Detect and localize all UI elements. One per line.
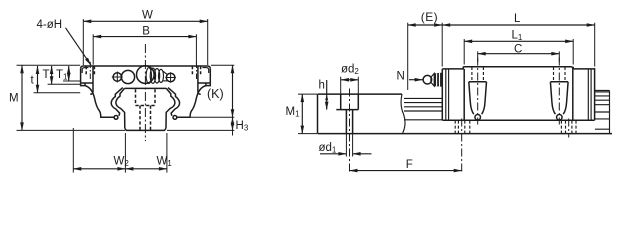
hidden rail hole under block (counterbore) — [455, 121, 470, 134]
dim L1 — [464, 40, 573, 42]
leader 4-oH — [66, 28, 92, 65]
hidden rail hole 3 (through) — [566, 121, 572, 134]
svg-text:(K): (K) — [207, 87, 224, 101]
bottom extension line (rail bottom extended left) — [17, 129, 126, 131]
block top-left corner — [81, 66, 84, 69]
od2 extension lines — [341, 77, 359, 94]
block inner profile left (wraps rail groove) — [111, 88, 123, 116]
dim H3 vertical — [232, 117, 234, 130]
L1 extension lines — [464, 39, 573, 65]
lip bottom extended right for K/H3 — [191, 116, 234, 118]
W1 left extension (rail left side ext) — [124, 133, 126, 173]
dim h — [326, 80, 328, 110]
svg-text:B: B — [142, 25, 150, 37]
block side outline — [442, 67, 594, 121]
svg-text:ød2: ød2 — [341, 64, 359, 77]
svg-text:T: T — [43, 69, 50, 81]
second hole centerline — [461, 119, 463, 173]
svg-text:F: F — [406, 159, 413, 171]
block top-right corner — [208, 66, 211, 69]
dim C — [478, 53, 560, 55]
svg-text:W2: W2 — [114, 156, 130, 169]
rail bottom extended right for H3 — [167, 129, 234, 131]
N leader — [409, 79, 423, 81]
hidden rail hole 3 under right cap (counterbore) — [561, 121, 576, 134]
dim B — [93, 36, 196, 38]
h up arrow — [325, 94, 328, 100]
block mounting hole left (hidden) — [86, 66, 94, 76]
svg-text:N: N — [397, 71, 405, 83]
block inner profile right (wraps rail groove) — [168, 88, 180, 116]
end cap face line left — [81, 67, 93, 95]
block cap joint left — [463, 69, 465, 120]
svg-text:ød1: ød1 — [319, 142, 337, 155]
nipple body white stripes — [437, 73, 440, 87]
cap inner corner top-left — [82, 68, 88, 73]
svg-text:W: W — [142, 10, 153, 22]
dim F — [350, 170, 462, 172]
svg-text:(E): (E) — [421, 10, 438, 24]
dim W — [83, 20, 207, 22]
od1 extension lines — [346, 134, 352, 157]
cap inner corner top-right — [202, 68, 208, 73]
dim t — [37, 66, 39, 93]
block tapped hole bullet 1 — [469, 82, 487, 114]
carriage block outline (front view) — [81, 66, 211, 83]
E extension line — [407, 23, 409, 90]
hidden rail hole under block (through) — [458, 121, 464, 134]
rail counterbore (side) — [336, 94, 358, 110]
dim T1 — [68, 66, 70, 81]
hole 3 centerline — [568, 119, 570, 138]
rail hole centerline — [349, 89, 351, 173]
rail grooves right of block — [595, 91, 610, 134]
bullet1 centerline — [477, 58, 479, 125]
bullet2 hidden thread lines — [554, 67, 566, 82]
svg-text:M: M — [9, 93, 19, 105]
rail break line — [401, 94, 405, 134]
rail through hole (side) — [346, 110, 352, 134]
ball circle left lip — [114, 116, 118, 120]
seal plate lines right — [588, 69, 591, 120]
W1 right extension (rail right side ext) — [166, 133, 168, 173]
face port circle left — [121, 70, 134, 83]
H3 line tail — [232, 130, 234, 135]
dim W2 — [73, 168, 125, 170]
grease nipple (side view) ball — [423, 75, 432, 84]
W extension lines — [83, 19, 207, 65]
svg-text:H3: H3 — [236, 120, 249, 133]
svg-text:M1: M1 — [286, 106, 301, 119]
dim M1 — [301, 94, 303, 134]
rail bolt hole hidden (counterbore) — [136, 89, 156, 105]
B extension lines — [93, 34, 196, 65]
t bottom extension — [34, 92, 81, 94]
rail top/bottom extended left for M1 — [298, 94, 317, 134]
dim T — [51, 66, 53, 84]
rail side sectioned part outline — [318, 94, 613, 134]
T bottom extension — [48, 83, 81, 85]
grease nipple body — [434, 73, 442, 87]
W2/W1 left extension — [72, 128, 74, 173]
block top extended right for K — [211, 64, 234, 66]
T1 bottom extension — [63, 80, 80, 82]
main vertical centerline — [144, 44, 146, 141]
svg-text:T1: T1 — [56, 69, 68, 82]
bullet2 tip ball — [557, 114, 563, 120]
rail grooves left of block — [404, 98, 442, 119]
bullet1 tip ball — [475, 114, 481, 120]
svg-text:4-øH: 4-øH — [37, 19, 63, 31]
block right side step and lower lip — [176, 83, 210, 117]
grease nipple seat circle center — [137, 66, 155, 84]
rail bolt hole hidden (through hole) — [140, 106, 151, 130]
C extension lines — [478, 51, 560, 62]
svg-text:C: C — [514, 44, 522, 56]
rail cross-section — [116, 88, 175, 130]
block tapped hole bullet 2 — [550, 82, 568, 114]
dim K vertical — [232, 65, 234, 117]
top extension line (block top extended left) — [17, 64, 81, 66]
dim W1 — [125, 168, 166, 170]
bullet2 centerline — [558, 58, 560, 125]
dim L — [442, 24, 595, 26]
face screw cross left — [112, 72, 123, 83]
grease nipple cone — [163, 71, 167, 81]
centerline hole right — [196, 62, 198, 79]
block left side step and lower lip — [81, 83, 115, 117]
face screw circle far left — [113, 73, 121, 81]
svg-text:L1: L1 — [512, 29, 523, 42]
dim E — [408, 24, 443, 26]
grease nipple threads — [146, 68, 163, 84]
dim od1 arrows outside — [320, 153, 346, 155]
svg-text:t: t — [31, 75, 35, 87]
dim od2 — [341, 79, 358, 81]
seal plate lines left — [446, 69, 449, 120]
block mounting hole right (hidden) — [192, 66, 200, 76]
L extension lines — [442, 23, 595, 67]
dim M — [21, 65, 23, 130]
grease nipple ball end — [166, 73, 175, 82]
svg-text:L: L — [514, 13, 521, 25]
grease nipple cone — [431, 73, 434, 86]
svg-text:W1: W1 — [157, 156, 173, 169]
end cap face line right — [198, 67, 210, 95]
ball circle right lip — [173, 116, 177, 120]
svg-text:h: h — [319, 80, 325, 92]
block cap joint right — [572, 69, 574, 120]
bullet1 hidden thread lines — [472, 67, 484, 82]
centerline hole left — [89, 62, 91, 79]
nipple ball cross — [165, 72, 176, 83]
